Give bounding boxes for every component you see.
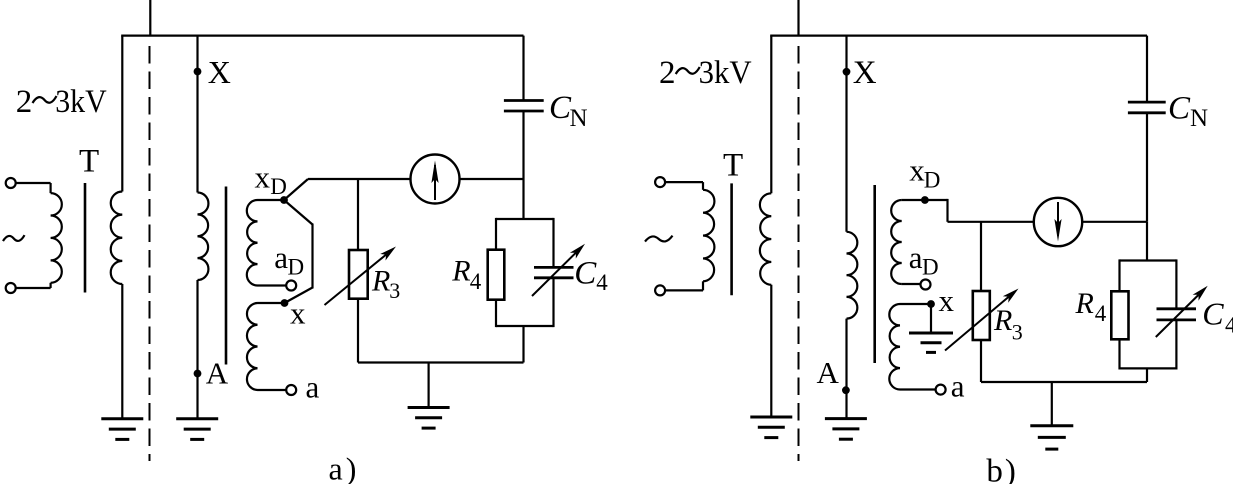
wire: xD to measuring bus corner (fig b) — [925, 199, 948, 222]
capacitor C4 plates (fig b) — [1157, 309, 1197, 320]
svg-text:b): b) — [986, 454, 1016, 484]
R4-C4 parallel box top (fig a) — [496, 218, 554, 220]
ground under T secondary (fig a) — [101, 417, 143, 420]
svg-text:4: 4 — [596, 270, 608, 295]
VT secondary winding x-a (fig a) — [247, 303, 286, 390]
wire: VT primary line X-A (fig a) — [198, 36, 209, 419]
transformer T core bar (fig b) — [730, 183, 733, 295]
svg-text:2: 2 — [659, 55, 676, 91]
wire: measuring bus right of meter (fig a) — [460, 178, 524, 180]
svg-text:A: A — [817, 355, 840, 390]
svg-text:x: x — [290, 296, 306, 331]
transformer T primary winding (fig b) — [703, 182, 714, 290]
svg-text:a: a — [951, 369, 965, 404]
wire: xD to measuring bus diagonal (fig a) — [284, 179, 308, 200]
ground under T secondary (fig b) — [750, 416, 792, 419]
svg-text:D: D — [924, 167, 941, 192]
C4 variability arrow (fig b) — [1156, 295, 1199, 337]
wire: meter bus to R4C4 box (fig a) — [522, 179, 524, 219]
svg-text:N: N — [570, 105, 588, 132]
svg-text:R: R — [1075, 287, 1094, 320]
svg-text:T: T — [79, 144, 99, 180]
svg-text:T: T — [723, 147, 743, 183]
svg-text:C: C — [1168, 90, 1191, 126]
node A (fig a) — [194, 370, 202, 378]
svg-text:x: x — [939, 283, 955, 318]
wire: R3 top lead (fig b) — [980, 222, 982, 292]
label 2~3kV (fig a) — [16, 84, 107, 120]
label aD (fig a) — [274, 240, 304, 280]
wire: R3 bottom lead (fig b) — [980, 340, 982, 383]
wire: ground stub (fig a) — [428, 363, 430, 408]
svg-text:4: 4 — [1225, 312, 1233, 337]
transformer T core bar (fig a) — [84, 183, 87, 293]
svg-text:3: 3 — [389, 278, 400, 303]
capacitor CN plates (fig a) — [504, 101, 544, 112]
wire: source top lead (fig b) — [665, 181, 703, 183]
wire: supply stub above bus (fig a) — [149, 0, 151, 36]
node x (fig a) — [281, 299, 289, 307]
wire: top HV bus (fig a) — [121, 34, 523, 36]
terminal a (fig b) — [936, 385, 946, 395]
dashed screen/barrier line (fig b) — [798, 46, 800, 461]
node x (fig b) — [927, 300, 935, 308]
label C4 (fig b) — [1202, 296, 1233, 338]
wire: box bottom to return bus (fig b) — [1146, 368, 1148, 382]
svg-text:3kV: 3kV — [699, 55, 752, 91]
node A (fig b) — [842, 386, 850, 394]
svg-text:C: C — [1202, 296, 1224, 332]
wire: measuring bus right of meter (fig b) — [1082, 221, 1147, 223]
label CN (fig a) — [549, 90, 588, 132]
wire: ground stub (fig b) — [1051, 382, 1053, 426]
capacitor C4 plates (fig a) — [534, 267, 574, 277]
wire: VT primary line X-A (fig b) — [847, 36, 858, 419]
ground under VT primary (fig a) — [176, 417, 218, 420]
VT auxiliary winding xD-aD (fig b) — [891, 200, 925, 284]
wire: R3 bottom lead (fig a) — [357, 300, 359, 363]
wire: CN bottom lead to meter bus (fig a) — [522, 111, 524, 179]
wire: measuring bus left of meter (fig b) — [948, 221, 1035, 223]
terminal a (fig a) — [286, 385, 296, 395]
source terminal bottom (fig b) — [655, 285, 665, 295]
terminal aD (fig b) — [921, 280, 931, 290]
ground of measuring circuit (fig a) — [408, 406, 450, 409]
svg-text:a: a — [909, 240, 923, 275]
label R4 (fig a) — [451, 255, 482, 294]
wire: source bottom lead (fig a) — [16, 287, 51, 289]
label CN (fig b) — [1168, 90, 1208, 131]
label xD (fig b) — [909, 152, 940, 192]
svg-text:a): a) — [329, 451, 357, 484]
label R4 (fig b) — [1075, 287, 1107, 326]
VT core bar (fig b) — [873, 185, 876, 363]
wire: R4 branch upper (fig b) — [1118, 259, 1120, 292]
label R3 (fig a) — [371, 265, 400, 303]
label C4 (fig a) — [574, 256, 608, 295]
svg-text:X: X — [853, 55, 877, 91]
source terminal top (fig b) — [655, 177, 665, 187]
resistor R4 body (fig b) — [1111, 291, 1128, 339]
wire: bottom return bus (fig b) — [981, 381, 1147, 383]
wire: measuring bus left of meter (fig a) — [308, 178, 411, 180]
wire: xD to x bypass (fig a) — [284, 200, 313, 303]
resistor R3 body (fig b) — [973, 291, 990, 340]
wire: R4 branch upper (fig a) — [495, 218, 497, 251]
wire: C4 branch lower (fig b) — [1175, 320, 1177, 370]
label xD (fig a) — [255, 159, 287, 199]
dashed screen/barrier line (fig a) — [149, 46, 151, 461]
svg-text:4: 4 — [1095, 301, 1107, 326]
C4 variability arrow (fig a) — [532, 253, 576, 296]
svg-text:R: R — [993, 304, 1012, 337]
svg-text:D: D — [922, 255, 939, 280]
meter P1 (fig b) — [1034, 198, 1082, 246]
svg-text:R: R — [371, 265, 390, 298]
node X (fig b) — [843, 68, 851, 76]
R4-C4 parallel box bottom (fig b) — [1120, 367, 1177, 369]
label 2~3kV (fig b) — [659, 55, 752, 91]
wire: supply stub above bus (fig b) — [797, 0, 799, 36]
node xD (fig b) — [921, 196, 929, 204]
wire: R4 branch lower (fig b) — [1118, 339, 1120, 370]
transformer T secondary winding with HV line (fig b) — [760, 36, 771, 417]
node X (fig a) — [194, 68, 202, 76]
wire: top HV bus (fig b) — [770, 34, 1147, 36]
ground under VT primary (fig b) — [825, 417, 867, 420]
source terminal bottom (fig a) — [6, 283, 16, 293]
R3 variability arrow (fig a) — [325, 255, 387, 305]
R4-C4 parallel box bottom (fig a) — [496, 325, 554, 327]
capacitor CN top lead (fig b) — [1146, 36, 1148, 103]
VT auxiliary winding xD-aD (fig a) — [247, 200, 287, 286]
R4-C4 parallel box top (fig b) — [1120, 259, 1177, 261]
source terminal top (fig a) — [6, 178, 16, 188]
svg-text:x: x — [255, 159, 271, 194]
wire: source bottom lead (fig b) — [665, 289, 703, 291]
svg-text:D: D — [288, 255, 305, 280]
wire: CN bottom lead to meter bus (fig b) — [1146, 113, 1148, 222]
svg-text:3kV: 3kV — [55, 84, 107, 120]
svg-text:3: 3 — [1012, 319, 1023, 344]
wire: box bottom to return bus (fig a) — [522, 326, 524, 363]
wire: meter bus to R4C4 box (fig b) — [1146, 222, 1148, 261]
R3 variability arrow (fig b) — [945, 297, 1009, 351]
svg-text:N: N — [1190, 105, 1208, 132]
ground of measuring circuit (fig b) — [1030, 424, 1073, 427]
resistor R3 body (fig a) — [349, 250, 368, 299]
AC source ~ symbol (fig b) — [645, 236, 673, 242]
wire: bottom return bus (fig a) — [358, 361, 524, 363]
wire: source top lead (fig a) — [16, 182, 51, 184]
label R3 (fig b) — [993, 304, 1023, 344]
meter P1 (fig a) — [411, 155, 460, 204]
VT secondary winding x-a (fig b) — [889, 304, 935, 390]
wire: C4 branch upper (fig a) — [552, 218, 554, 268]
wire: R3 top lead (fig a) — [357, 179, 359, 249]
node xD (fig a) — [280, 196, 288, 204]
svg-text:a: a — [306, 370, 320, 405]
svg-text:2: 2 — [16, 84, 33, 120]
svg-text:a: a — [274, 240, 288, 275]
wire: R4 branch lower (fig a) — [495, 299, 497, 327]
resistor R4 body (fig a) — [488, 250, 505, 300]
svg-text:D: D — [270, 174, 287, 199]
transformer T secondary winding with HV line (fig a) — [111, 36, 123, 419]
capacitor CN top lead (fig a) — [522, 36, 524, 101]
terminal aD (fig a) — [286, 281, 296, 291]
AC source ~ symbol (fig a) — [3, 235, 25, 241]
wire: C4 branch lower (fig a) — [552, 278, 554, 327]
ground at x terminal (fig b) — [909, 332, 953, 335]
label aD (fig b) — [909, 240, 939, 280]
transformer T primary winding (fig a) — [51, 183, 62, 288]
wire: x ground stub (fig b) — [930, 304, 932, 333]
capacitor CN plates (fig b) — [1128, 102, 1166, 113]
svg-text:C: C — [574, 256, 597, 292]
VT core bar (fig a) — [225, 187, 228, 365]
svg-text:X: X — [208, 54, 231, 90]
svg-text:R: R — [451, 255, 470, 288]
wire: C4 branch upper (fig b) — [1175, 259, 1177, 308]
svg-text:4: 4 — [470, 269, 482, 294]
